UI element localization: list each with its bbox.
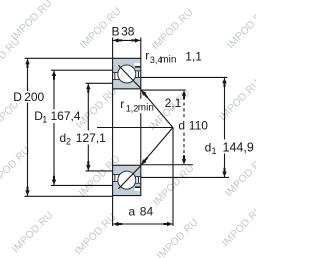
d1 ext bottom bbox=[141, 176, 229, 178]
d1 ext top bbox=[141, 76, 228, 78]
upper section bbox=[113, 59, 141, 90]
d dim line dashed bbox=[183, 103, 185, 118]
svg-text:144,9: 144,9 bbox=[223, 141, 254, 155]
svg-text:r: r bbox=[145, 49, 149, 63]
svg-text:84: 84 bbox=[140, 204, 154, 218]
bearing right edge + B ext bbox=[140, 38, 142, 197]
svg-text:200: 200 bbox=[24, 90, 44, 104]
svg-text:110: 110 bbox=[189, 119, 208, 133]
watermark row2 bbox=[0, 36, 263, 133]
svg-text:B: B bbox=[112, 24, 120, 38]
D1 ext top bbox=[51, 69, 112, 71]
svg-text:r: r bbox=[120, 97, 124, 111]
svg-text:127,1: 127,1 bbox=[76, 131, 106, 145]
d2 ext bottom bbox=[86, 170, 113, 172]
svg-text:1: 1 bbox=[42, 115, 47, 125]
d2 ext top bbox=[86, 82, 113, 84]
bearing left edge + B ext + a ext bbox=[112, 38, 114, 227]
lower arm leader bbox=[141, 128, 173, 165]
watermark row1 bbox=[9, 0, 270, 52]
svg-text:167,4: 167,4 bbox=[51, 109, 81, 123]
svg-text:1: 1 bbox=[212, 146, 217, 156]
d2 dim line bbox=[87, 84, 89, 171]
D1 ext bottom bbox=[51, 184, 112, 186]
watermark row4 bbox=[10, 204, 265, 258]
d1 dim line bbox=[224, 78, 226, 178]
svg-text:min: min bbox=[138, 102, 154, 113]
svg-text:2,1: 2,1 bbox=[165, 96, 182, 110]
D ext top bbox=[25, 57, 113, 59]
svg-text:D: D bbox=[13, 90, 22, 104]
D dim line bbox=[27, 59, 29, 196]
bearing bottom edge bbox=[112, 195, 141, 197]
svg-text:1,1: 1,1 bbox=[185, 49, 202, 63]
svg-text:a: a bbox=[129, 204, 136, 218]
watermark row3 bbox=[0, 145, 269, 208]
D1 dim line bbox=[53, 70, 55, 185]
D ext bottom bbox=[25, 195, 113, 197]
svg-text:min: min bbox=[160, 54, 176, 65]
svg-text:2: 2 bbox=[66, 137, 71, 147]
upper arm r1,2 leader bbox=[142, 91, 173, 128]
bearing top edge bbox=[112, 57, 141, 59]
bearing dimension drawing bbox=[0, 0, 256, 258]
a dim line bbox=[113, 223, 173, 225]
d ext top bbox=[141, 89, 186, 91]
axis line bbox=[97, 127, 173, 129]
svg-text:d: d bbox=[205, 141, 212, 155]
B dim line bbox=[113, 39, 141, 41]
svg-text:38: 38 bbox=[121, 24, 135, 38]
d ext bottom bbox=[141, 164, 193, 166]
lower section (mirrored) bbox=[113, 165, 141, 196]
svg-text:1,2: 1,2 bbox=[126, 103, 139, 113]
a right extension bbox=[172, 128, 174, 227]
svg-text:d: d bbox=[178, 119, 185, 133]
